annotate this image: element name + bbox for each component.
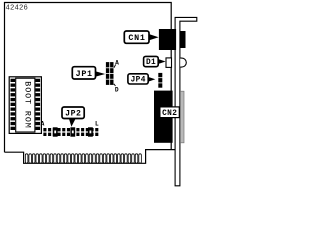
svg-text:JP2: JP2 [65, 109, 81, 118]
jumper block JP2 [43, 127, 98, 136]
connector CN2 [154, 91, 184, 143]
svg-text:D: D [115, 87, 119, 94]
jumper block JP1 [106, 62, 114, 85]
svg-text:JP4: JP4 [131, 77, 146, 85]
svg-text:L: L [95, 120, 99, 127]
svg-text:A: A [41, 120, 45, 127]
pin D marker (JP1) [114, 84, 119, 94]
label JP2 [62, 107, 84, 127]
svg-text:D1: D1 [146, 59, 156, 67]
connector CN1 [159, 29, 186, 50]
label CN2 [160, 107, 179, 118]
svg-text:CN2: CN2 [162, 110, 177, 118]
pin A marker (JP1) [114, 59, 119, 67]
label JP4 [128, 74, 155, 85]
svg-text:BOOT ROM: BOOT ROM [23, 81, 33, 128]
boot rom U1 [9, 77, 41, 134]
label CN1 [124, 31, 158, 43]
svg-text:42426: 42426 [6, 5, 29, 13]
label JP1 [72, 67, 105, 79]
board outline [5, 3, 176, 164]
mounting bracket [175, 17, 197, 185]
svg-text:CN1: CN1 [128, 33, 145, 43]
label D1 [144, 56, 166, 67]
edge connector fingers [25, 154, 141, 163]
svg-text:JP1: JP1 [76, 69, 93, 79]
LED D1 [166, 58, 186, 68]
jumper JP4 [158, 73, 162, 88]
